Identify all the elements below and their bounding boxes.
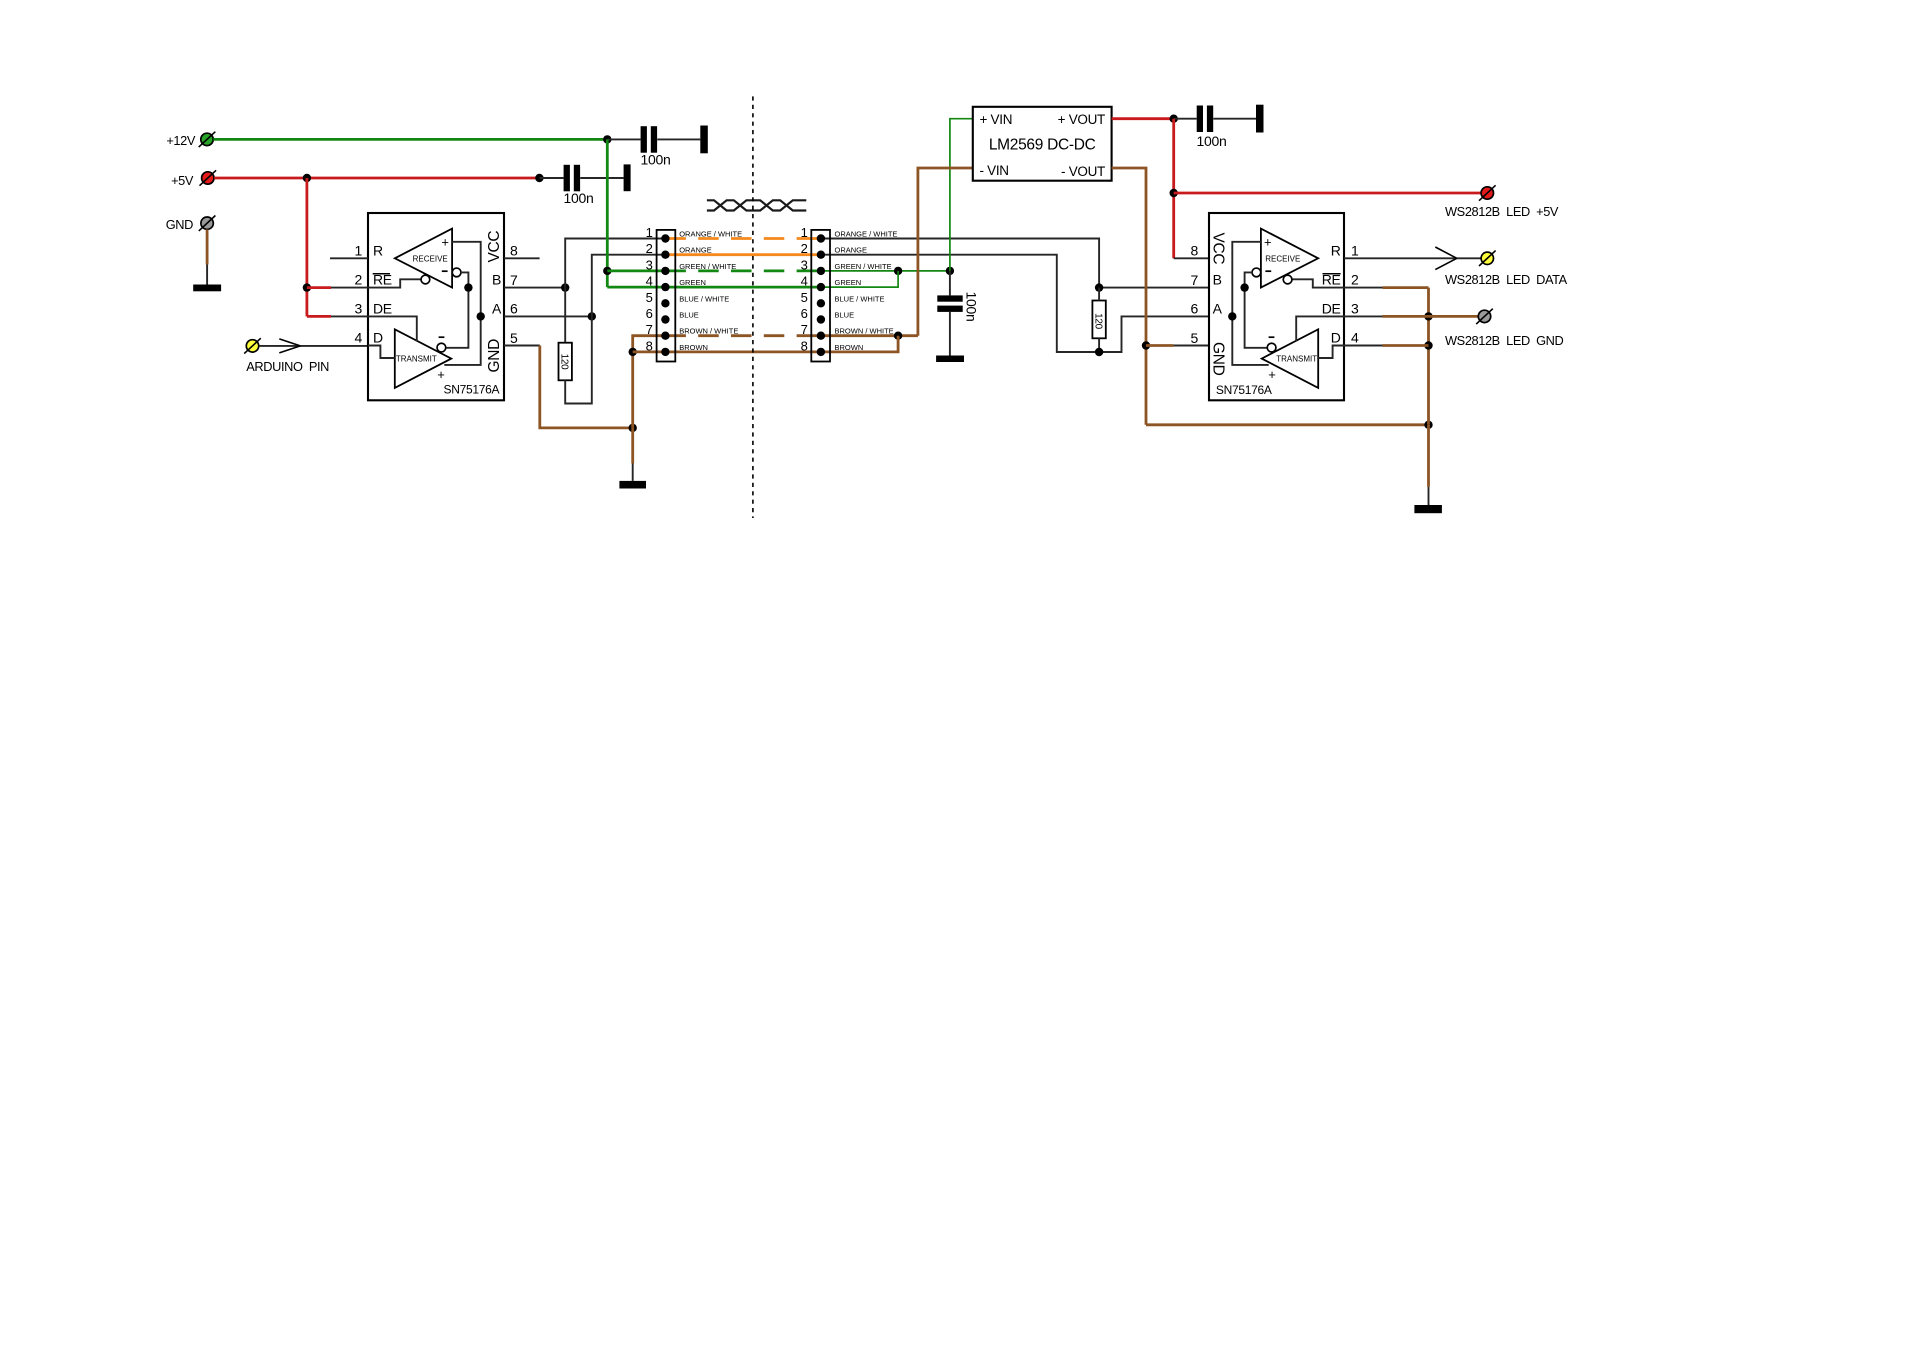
connector J1 pin 1 [661, 234, 669, 242]
wire C4 to plane bar [1213, 118, 1256, 120]
svg-text:BLUE: BLUE [835, 311, 855, 320]
svg-text:ARDUINO PIN: ARDUINO PIN [246, 359, 329, 374]
U2 pin number 2 [1351, 272, 1359, 288]
wire green row3 left [607, 269, 665, 272]
wire RE-DE-D brown vertical [1427, 288, 1430, 425]
connector J1 box [657, 230, 676, 362]
U1 transmit triangle [395, 329, 452, 388]
svg-text:+ VOUT: + VOUT [1058, 112, 1105, 127]
wire +5V red [214, 177, 539, 180]
U1 RE enable path [368, 279, 421, 287]
U1 transmit inv bubble [437, 343, 446, 352]
connector J2 label BROWN / WHITE [835, 327, 894, 336]
connector J1 label BROWN [679, 343, 708, 352]
power module PS1 box [973, 107, 1112, 181]
wire GND pin5 stub [1174, 345, 1209, 347]
svg-text:BROWN: BROWN [835, 343, 864, 352]
svg-text:VCC: VCC [1209, 233, 1226, 265]
svg-text:TRANSMIT: TRANSMIT [1276, 355, 1317, 364]
svg-text:BLUE: BLUE [679, 311, 699, 320]
connector J1 pin 3 [661, 267, 669, 275]
svg-text:D: D [373, 330, 383, 346]
ground symbol left [193, 285, 221, 292]
junction D brown [1424, 341, 1432, 349]
wire +5V stub to RE [307, 286, 331, 289]
svg-text:SN75176A: SN75176A [1216, 383, 1272, 397]
wire C3 to plane bar [949, 312, 951, 356]
svg-text:3: 3 [355, 300, 363, 316]
svg-text:BROWN: BROWN [679, 343, 708, 352]
svg-text:WS2812B LED +5V: WS2812B LED +5V [1445, 204, 1559, 219]
U2 transmit label [1276, 355, 1317, 364]
capacitor C2 100n [564, 165, 581, 192]
connector J2 box [811, 230, 830, 362]
U2 D input path [1318, 346, 1344, 359]
junction green row3 [603, 267, 611, 275]
U2 pin number 1 [1351, 242, 1359, 258]
connector J2 label BLUE [835, 311, 855, 320]
U1 transmit minus [439, 336, 445, 338]
PS1 label -VOUT [1061, 164, 1105, 179]
U1 pin number 6 [510, 301, 518, 317]
svg-text:100n: 100n [564, 190, 594, 206]
svg-text:5: 5 [646, 290, 653, 305]
connector J1 pin number 8 [646, 338, 653, 353]
connector J1 pin number 6 [646, 306, 653, 321]
U1 internal junction A [477, 312, 485, 320]
svg-text:LM2569 DC-DC: LM2569 DC-DC [989, 136, 1096, 153]
svg-text:ORANGE: ORANGE [835, 246, 868, 255]
connector J2 label GREEN / WHITE [835, 262, 892, 271]
U2 pin number 3 [1351, 300, 1359, 316]
connector J1 label GREEN / WHITE [679, 262, 736, 271]
wire +5V stub to DE [307, 315, 331, 318]
svg-text:+: + [1264, 234, 1272, 249]
U2 receiver triangle [1261, 229, 1318, 288]
cable pair4 wire brown/white [665, 334, 821, 337]
junction R2 bottom [1095, 348, 1103, 356]
U2 pin name B [1213, 272, 1222, 288]
svg-text:8: 8 [801, 338, 808, 353]
wire GND row8 left [633, 350, 666, 353]
connector J2 label GREEN [835, 278, 862, 287]
value label C1 100n [641, 151, 671, 167]
wire DE stub right [1344, 315, 1383, 317]
wire GND to ground black [632, 464, 634, 481]
U1 pin name R [373, 242, 383, 258]
U1 RE enable bubble [421, 275, 430, 284]
svg-text:2: 2 [646, 241, 653, 256]
cable boundary dashed line [752, 96, 754, 518]
svg-text:+: + [437, 367, 445, 382]
U1 pin 5 stub [504, 345, 540, 347]
U2 receiver minus [1265, 270, 1271, 272]
svg-text:2: 2 [355, 272, 363, 288]
capacitor C4 100n [1197, 106, 1214, 133]
connector J1 pin number 5 [646, 290, 653, 305]
cable pair2 wire green/white [665, 269, 821, 272]
U1 pin name VCC [486, 231, 503, 263]
connector J2 pin number 2 [801, 241, 808, 256]
U2 receiver plus [1264, 234, 1272, 249]
U2 transmit inv bubble [1267, 343, 1276, 352]
U1 part label SN75176A [444, 383, 500, 397]
U2 pin name GND [1209, 342, 1226, 376]
terminal WS2812B LED DATA [1479, 251, 1496, 266]
wire RE brown [1383, 286, 1429, 289]
svg-text:4: 4 [646, 274, 653, 289]
wire +12V vertical [606, 139, 609, 287]
U1 pin 3 stub [331, 315, 368, 317]
svg-text:5: 5 [801, 290, 808, 305]
U2 internal VCC/A net [1232, 242, 1268, 365]
arrowhead D input [279, 339, 300, 353]
U2 DE enable path [1296, 316, 1344, 341]
wire R output [1344, 257, 1481, 259]
connector J2 pin number 7 [801, 322, 808, 337]
ground symbol mid-left [619, 481, 646, 489]
svg-text:100n: 100n [641, 151, 671, 167]
svg-text:+12V: +12V [166, 133, 196, 148]
wire GND U1 brown [540, 346, 633, 428]
junction A left [588, 312, 596, 320]
connector J2 pin 5 [817, 299, 825, 307]
svg-text:3: 3 [1351, 300, 1359, 316]
junction +5V at RE/DE branch [303, 174, 311, 182]
U1 pin number 8 [510, 243, 518, 259]
wire to C3 [949, 271, 951, 296]
junction +VOUT [1170, 115, 1178, 123]
U1 pin name B [492, 272, 501, 288]
U2 internal B net [1245, 272, 1267, 347]
PS1 name LM2569 DC-DC [989, 136, 1096, 153]
label WS2812B LED GND [1445, 333, 1564, 348]
svg-text:2: 2 [801, 241, 808, 256]
plane bar at C4 [1256, 105, 1264, 133]
U1 internal B net [446, 272, 468, 347]
wire GND stem black [206, 265, 208, 285]
wire A to row2 [592, 255, 666, 317]
connector J1 pin 5 [661, 299, 669, 307]
svg-text:6: 6 [801, 306, 808, 321]
wire GND to ground right [1427, 425, 1430, 487]
wire GND rows 7-8 left [633, 336, 666, 428]
wire D stub right [1344, 345, 1383, 347]
label WS2812B LED DATA [1445, 272, 1568, 287]
connector J2 pin 7 [817, 332, 825, 340]
wire B to row1 [565, 239, 665, 288]
U1 pin 6 wire A [504, 315, 592, 317]
svg-text:GND: GND [166, 217, 193, 232]
wire DE to LED GND [1429, 315, 1479, 318]
svg-text:WS2812B LED DATA: WS2812B LED DATA [1445, 272, 1568, 287]
wire green to +VIN [950, 119, 973, 271]
U2 pin number 8 [1191, 243, 1199, 259]
junction GND row8 left [629, 348, 637, 356]
terminal ARDUINO PIN [244, 338, 261, 353]
U1 pin name D [373, 330, 383, 346]
resistor R2 120 [1092, 301, 1105, 339]
wire green row4 left [607, 286, 665, 289]
PS1 label -VIN [980, 163, 1009, 178]
connector J2 pin number 6 [801, 306, 808, 321]
U1 pin 8 stub [504, 257, 540, 259]
terminal GND label [166, 217, 193, 232]
wire +5V to C2 [539, 177, 563, 179]
connector J2 pin 2 [817, 251, 825, 259]
junction LED +5V [1170, 189, 1178, 197]
connector J2 pin 4 [817, 283, 825, 291]
terminal WS2812B LED GND [1476, 309, 1493, 324]
connector J2 pin 8 [817, 348, 825, 356]
junction B left [561, 283, 569, 291]
wire +12V green [213, 138, 607, 141]
connector J2 pin 6 [817, 315, 825, 323]
connector J1 label BLUE [679, 311, 699, 320]
svg-text:DE: DE [1322, 300, 1341, 316]
connector J1 pin number 1 [646, 225, 653, 240]
U2 pin number 4 [1351, 330, 1359, 346]
svg-text:BLUE / WHITE: BLUE / WHITE [679, 294, 729, 303]
U1 pin 2 stub [331, 287, 368, 289]
connector J1 pin number 2 [646, 241, 653, 256]
terminal WS2812B LED +5V [1479, 185, 1496, 200]
svg-text:2: 2 [1351, 272, 1359, 288]
svg-text:A: A [1213, 301, 1223, 317]
svg-text:A: A [492, 301, 502, 317]
op-amp U1 box [368, 213, 504, 400]
svg-text:1: 1 [801, 225, 808, 240]
resistor R1 lead bottom [565, 316, 592, 403]
wire +12V to C1 [607, 138, 640, 140]
U1 transmit label [396, 355, 437, 364]
junction GND left [629, 424, 637, 432]
svg-text:BROWN / WHITE: BROWN / WHITE [679, 327, 738, 336]
connector J2 pin number 1 [801, 225, 808, 240]
svg-text:+: + [1268, 367, 1276, 382]
resistor R2 lead bottom [1098, 338, 1100, 352]
connector J1 label ORANGE / WHITE [679, 230, 742, 239]
U2 transmit plus [1268, 367, 1276, 382]
U2 pin name A [1213, 301, 1223, 317]
wire -VIN brown [918, 168, 973, 336]
connector J2 label BLUE / WHITE [835, 294, 885, 303]
junction DE brown [1424, 312, 1432, 320]
U2 receiver label [1265, 254, 1300, 263]
cable pair1 wire orange [665, 253, 821, 256]
U2 internal junction B [1240, 283, 1248, 291]
junction brown tie right [894, 332, 902, 340]
wire brown row8 tie [821, 336, 898, 352]
svg-text:BROWN / WHITE: BROWN / WHITE [835, 327, 894, 336]
junction B right [1095, 283, 1103, 291]
ground symbol right [1414, 505, 1442, 513]
wire GND pin5 brown [1146, 344, 1174, 347]
connector J1 pin number 7 [646, 322, 653, 337]
PS1 label +VIN [980, 112, 1013, 127]
connector J1 label ORANGE [679, 246, 712, 255]
svg-text:6: 6 [1191, 301, 1199, 317]
terminal +5V label [171, 173, 194, 188]
U1 pin number 7 [510, 272, 518, 288]
connector J2 pin number 3 [801, 257, 808, 272]
svg-text:ORANGE / WHITE: ORANGE / WHITE [679, 230, 742, 239]
svg-text:GREEN / WHITE: GREEN / WHITE [835, 262, 892, 271]
U1 pin number 1 [355, 242, 363, 258]
connector J1 pin 2 [661, 251, 669, 259]
svg-text:R: R [373, 242, 383, 258]
svg-text:6: 6 [646, 306, 653, 321]
U1 receiver minus [442, 270, 448, 272]
svg-text:VCC: VCC [486, 231, 503, 263]
U1 pin 7 wire B [504, 287, 565, 289]
U1 receiver inv bubble [452, 268, 461, 277]
svg-text:6: 6 [510, 301, 518, 317]
arrowhead R output [1435, 247, 1457, 270]
resistor R2 value 120 [1093, 313, 1104, 330]
svg-text:ORANGE: ORANGE [679, 246, 712, 255]
svg-text:- VIN: - VIN [980, 163, 1009, 178]
junction green tie right [894, 267, 902, 275]
wire RE stub right [1344, 287, 1383, 289]
svg-text:3: 3 [801, 257, 808, 272]
wire +5V vertical branch [305, 178, 308, 316]
U1 receiver label [413, 254, 448, 263]
svg-text:+5V: +5V [171, 173, 194, 188]
connector J1 label BROWN / WHITE [679, 327, 738, 336]
wire green row3 right [821, 270, 950, 272]
svg-text:120: 120 [1093, 313, 1104, 330]
svg-text:- VOUT: - VOUT [1061, 164, 1105, 179]
wire -VOUT brown [1112, 168, 1146, 425]
svg-text:1: 1 [646, 225, 653, 240]
svg-text:D: D [1331, 330, 1341, 346]
plane bar at C2 [624, 164, 631, 191]
U1 pin number 5 [510, 330, 518, 346]
connector J2 pin 1 [817, 234, 825, 242]
wire GND stem brown [206, 229, 209, 264]
U1 pin number 2 [355, 272, 363, 288]
resistor R1 lead top [564, 288, 566, 343]
svg-text:DE: DE [373, 300, 392, 316]
svg-text:8: 8 [510, 243, 518, 259]
connector J2 label ORANGE [835, 246, 868, 255]
connector J1 label GREEN [679, 278, 706, 287]
U1 D input path [368, 346, 395, 359]
value label C2 100n [564, 190, 594, 206]
svg-text:100n: 100n [1197, 133, 1227, 149]
U2 receiver inv bubble [1252, 268, 1261, 277]
resistor R2 lead top [1098, 288, 1100, 301]
svg-text:ORANGE / WHITE: ORANGE / WHITE [835, 230, 898, 239]
twisted pair icon [707, 200, 806, 210]
svg-text:GND: GND [486, 339, 503, 373]
svg-text:GND: GND [1209, 342, 1226, 376]
PS1 label +VOUT [1058, 112, 1105, 127]
connector J2 label BROWN [835, 343, 864, 352]
U2 pin name VCC [1209, 233, 1226, 265]
U2 RE enable path [1292, 279, 1344, 287]
wire GND bottom brown [1146, 423, 1429, 426]
label WS2812B LED +5V [1445, 204, 1559, 219]
svg-text:SN75176A: SN75176A [444, 383, 500, 397]
wire C2 to plane bar [580, 177, 623, 179]
svg-text:B: B [492, 272, 501, 288]
U1 pin name RE [373, 272, 392, 288]
value label C4 100n [1197, 133, 1227, 149]
op-amp U2 box [1209, 213, 1344, 400]
connector J1 pin number 4 [646, 274, 653, 289]
wire D brown [1383, 344, 1429, 347]
svg-text:4: 4 [1351, 330, 1359, 346]
U2 pin number 5 [1191, 330, 1199, 346]
U1 transmit plus [437, 367, 445, 382]
U1 receiver triangle [395, 229, 452, 288]
terminal +12V [199, 132, 216, 147]
U1 pin number 3 [355, 300, 363, 316]
U1 pin name GND [486, 339, 503, 373]
U1 receiver plus [441, 234, 449, 249]
svg-text:WS2812B LED GND: WS2812B LED GND [1445, 333, 1564, 348]
svg-text:8: 8 [1191, 243, 1199, 259]
connector J2 pin number 5 [801, 290, 808, 305]
connector J1 pin 4 [661, 283, 669, 291]
wire row1 to B right [821, 239, 1099, 288]
U2 transmit triangle [1262, 329, 1319, 388]
cable pair1 wire orange/white [665, 237, 821, 240]
U2 pin number 7 [1191, 272, 1199, 288]
connector J1 pin 8 [661, 348, 669, 356]
wire GND to ground [631, 428, 634, 464]
U2 RE enable bubble [1283, 275, 1292, 284]
U2 pin name R [1331, 242, 1341, 258]
svg-text:5: 5 [1191, 330, 1199, 346]
U1 pin name DE [373, 300, 392, 316]
connector J2 label ORANGE / WHITE [835, 230, 898, 239]
svg-text:1: 1 [1351, 242, 1359, 258]
capacitor C1 100n [641, 126, 658, 153]
value label C3 100n [964, 292, 980, 322]
junction GND bottom right [1424, 421, 1432, 429]
U1 internal junction B [464, 283, 472, 291]
svg-text:BLUE / WHITE: BLUE / WHITE [835, 294, 885, 303]
wire LED +5V red [1174, 192, 1481, 195]
U2 pin name D [1331, 330, 1341, 346]
label ARDUINO PIN [246, 359, 329, 374]
svg-text:4: 4 [801, 274, 808, 289]
svg-text:GREEN: GREEN [679, 278, 706, 287]
connector J1 pin 6 [661, 315, 669, 323]
terminal GND [199, 216, 216, 231]
wire row2 to A right [821, 255, 1209, 352]
connector J2 pin number 4 [801, 274, 808, 289]
wire VCC stub right [1174, 257, 1209, 259]
U2 pin name RE [1322, 272, 1341, 288]
svg-text:3: 3 [646, 257, 653, 272]
connector J1 pin 7 [661, 332, 669, 340]
connector J2 pin number 8 [801, 338, 808, 353]
U1 pin name A [492, 301, 502, 317]
wire +VOUT red [1112, 117, 1174, 120]
svg-text:7: 7 [510, 272, 518, 288]
junction GND pin5 right [1142, 341, 1150, 349]
wire B line right [1099, 287, 1209, 289]
svg-text:120: 120 [559, 354, 570, 371]
svg-text:GREEN / WHITE: GREEN / WHITE [679, 262, 736, 271]
resistor R1 120 [559, 343, 572, 381]
wire brown row7 right [821, 334, 918, 337]
cable pair4 wire brown [665, 350, 821, 353]
